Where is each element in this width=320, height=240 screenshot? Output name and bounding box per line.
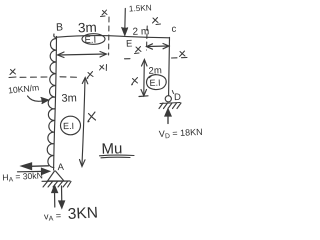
dashed section line through member CD at y=58 <box>125 57 192 58</box>
section mark x-bar (far left) <box>9 69 16 78</box>
distributed load 10KN/m scallops on column AB <box>47 38 56 167</box>
tick before D label <box>172 91 173 94</box>
svg-text:D: D <box>174 92 181 103</box>
svg-text:E.I: E.I <box>63 121 74 131</box>
dimension line 2m vertical (right, x=144) with arrowheads <box>139 60 148 97</box>
svg-text:E.I: E.I <box>149 78 160 88</box>
reaction arrow VD up <box>165 109 171 124</box>
script x mark (large, mid column) <box>88 112 96 122</box>
section mark x4 (right of CD cut) <box>180 51 186 57</box>
svg-text:2m: 2m <box>148 65 162 76</box>
member BC (top beam) <box>54 34 170 38</box>
dimension line 3m (top, y=54) with arrowheads <box>58 52 107 58</box>
pin support triangle at A <box>42 171 70 181</box>
roller support circle at D <box>165 96 171 102</box>
arrow at A base (pointing right) <box>18 168 50 174</box>
reaction arrow HA (upper, pointing left) <box>22 163 49 170</box>
section mark x1 (top, above dashed cut) <box>101 10 108 17</box>
svg-text:A: A <box>57 162 64 173</box>
ground hatching at A <box>43 182 71 188</box>
svg-text:E: E <box>126 38 133 49</box>
load arrow 1.5KN at E <box>122 9 128 36</box>
member CD (right column) <box>168 38 171 96</box>
section mark x2 (above 2m, top) <box>153 18 161 25</box>
dimension line x vertical (left, from section to A) with arrowheads <box>80 78 88 167</box>
EI oval on beam BC <box>82 34 105 45</box>
svg-text:2 m: 2 m <box>132 26 149 38</box>
arrow VA down <box>59 186 65 208</box>
dashed section line through member EC at x=147 <box>146 26 149 50</box>
dashed section line through column AB at y=77 <box>20 76 80 79</box>
ground hatching at D <box>159 103 181 109</box>
svg-text:3m: 3m <box>78 20 97 36</box>
underline of Mu <box>100 154 135 157</box>
svg-text:c: c <box>171 24 176 35</box>
reaction arrow VA up <box>52 186 58 208</box>
dimension line 2m (y=46.5) with arrowheads <box>147 44 170 50</box>
script x mark beside right dimension line <box>132 78 138 85</box>
EI circle on column AB <box>61 116 81 135</box>
small x1 mark top right of script x <box>100 65 107 71</box>
svg-text:3KN: 3KN <box>67 204 98 223</box>
dashed section line through beam at x=109 <box>108 17 110 55</box>
curved pointer arrow from 10KN/m label <box>28 96 49 104</box>
svg-text:3m: 3m <box>61 92 77 105</box>
column AB <box>54 37 57 171</box>
svg-text:1.5KN: 1.5KN <box>129 3 152 13</box>
script x mark beside left dimension line top <box>87 72 93 79</box>
EI scribble circle on member CD <box>147 75 167 90</box>
svg-text:E.I: E.I <box>84 35 96 46</box>
section mark x3 (left of CD cut) <box>135 47 142 54</box>
svg-text:B: B <box>56 21 63 33</box>
